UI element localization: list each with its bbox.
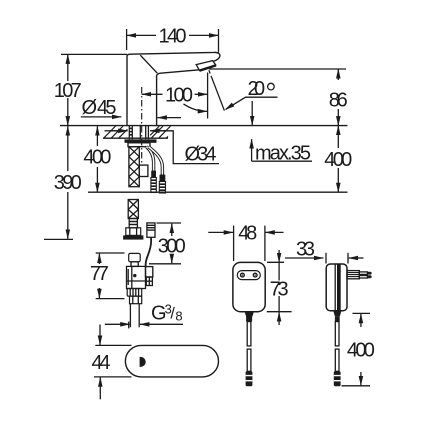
svg-text:48: 48 — [238, 223, 257, 245]
dimension 400 left — [96, 126, 98, 192]
sensor cable plug — [147, 223, 155, 237]
shank flange washer — [125, 139, 157, 142]
spray 20-degree slanted line — [209, 70, 225, 111]
dimension 140 — [127, 29, 219, 53]
faucet body outline — [127, 52, 220, 125]
front adapter cable stub — [245, 312, 254, 317]
svg-text:20: 20 — [248, 78, 266, 100]
deck underside line — [103, 137, 168, 139]
valve coupling nut — [127, 289, 142, 297]
threaded shank in deck hole — [129, 126, 148, 140]
dimension 107 — [61, 54, 127, 125]
dimension 300 — [149, 223, 181, 264]
dimension 86 — [337, 69, 339, 126]
plug pins — [359, 272, 367, 275]
20 degree angle arc with arrow — [184, 104, 208, 112]
valve top fitting — [129, 253, 141, 261]
mounting nut — [126, 228, 141, 236]
svg-text:Ø 45: Ø 45 — [82, 97, 117, 119]
dimension 48 — [208, 226, 283, 261]
label diameter 34 with bent leader — [105, 131, 220, 164]
svg-text:300: 300 — [158, 235, 186, 257]
svg-text:140: 140 — [159, 26, 187, 48]
deck thickness upper arrow — [251, 101, 253, 125]
dimension 390 — [44, 126, 73, 239]
right partner arrow of 45 — [157, 117, 181, 119]
socket holes — [241, 273, 245, 277]
deck hatching — [104, 126, 171, 138]
hose 2 — [149, 147, 163, 175]
escutcheon oval top view — [125, 345, 218, 377]
mounting shaft lower piece (cross-hatched) — [128, 200, 138, 228]
spray reference vertical line — [207, 73, 209, 119]
mounting shaft upper (cross-hatched) — [129, 147, 139, 187]
socket face pill — [237, 271, 260, 280]
pipe diameter partner arrow — [105, 323, 130, 325]
faucet centerline — [141, 87, 143, 163]
svg-text:86: 86 — [329, 89, 348, 111]
dimension 400 cable — [342, 313, 371, 385]
sensor cable to valve — [146, 237, 152, 266]
svg-text:400: 400 — [324, 149, 352, 171]
svg-text:Ø34: Ø34 — [185, 143, 217, 165]
hose length reference line — [88, 191, 348, 193]
dimension 44 — [94, 325, 132, 400]
dimension 400 right upper — [337, 126, 339, 193]
bottom washer — [123, 235, 143, 239]
spout height reference line — [209, 68, 346, 70]
svg-text:44: 44 — [92, 352, 111, 374]
dimension 33 — [285, 253, 364, 264]
side adapter cable plug — [334, 371, 341, 386]
svg-text:73: 73 — [270, 278, 289, 300]
svg-text:77: 77 — [90, 263, 109, 285]
20 degree leader — [226, 97, 278, 109]
svg-text:8: 8 — [175, 308, 182, 323]
hose 2 connector — [159, 175, 165, 194]
valve hex — [130, 296, 142, 304]
dimension 73 — [267, 250, 292, 325]
clamp block right of shaft — [139, 165, 148, 176]
side view inner line — [334, 265, 336, 311]
front adapter cable — [247, 322, 251, 346]
svg-text:400: 400 — [347, 340, 375, 362]
hose 1 connector — [151, 171, 156, 193]
valve body — [127, 266, 146, 288]
power adapter front view body — [233, 262, 265, 311]
front adapter cable plug — [246, 371, 253, 386]
dimension 100 — [142, 93, 208, 95]
dimension 77 — [96, 253, 125, 299]
valve cable connector box — [146, 267, 153, 277]
side adapter cable — [335, 322, 339, 346]
svg-text:390: 390 — [54, 172, 82, 194]
side adapter cable stub — [333, 311, 341, 316]
sensor window mark — [140, 357, 146, 367]
svg-text:100: 100 — [165, 85, 193, 107]
hose 1 — [147, 147, 154, 171]
supply pipe G3/8 — [130, 304, 139, 328]
svg-text:107: 107 — [54, 80, 82, 102]
side view dark band — [337, 264, 341, 310]
svg-text:400: 400 — [83, 147, 111, 169]
power adapter side view body — [326, 264, 347, 311]
svg-text:33: 33 — [296, 239, 315, 261]
plug block — [347, 271, 359, 279]
deck line — [60, 125, 348, 127]
faucet aerator tip — [196, 61, 216, 71]
valve neck — [131, 262, 138, 267]
